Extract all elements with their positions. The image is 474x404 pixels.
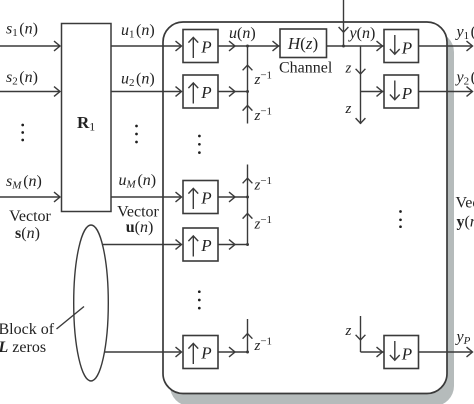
- svg-text:P: P: [200, 38, 211, 57]
- svg-text:H(z): H(z): [287, 34, 318, 53]
- svg-text:y(n): y(n): [348, 25, 376, 42]
- svg-text:Channel: Channel: [279, 60, 333, 77]
- svg-text:z: z: [345, 323, 352, 339]
- svg-text:P: P: [401, 84, 412, 103]
- svg-text:uM(n): uM(n): [119, 172, 157, 191]
- svg-text:u1(n): u1(n): [121, 22, 155, 41]
- svg-text:P: P: [200, 189, 211, 208]
- svg-text:Vector: Vector: [117, 204, 159, 221]
- svg-text:s(n): s(n): [15, 225, 40, 242]
- svg-text:L zeros: L zeros: [0, 339, 46, 356]
- svg-text:u(n): u(n): [229, 25, 256, 42]
- svg-text:Vector: Vector: [456, 195, 474, 212]
- svg-text:P: P: [200, 83, 211, 102]
- svg-text:P: P: [200, 344, 211, 363]
- svg-text:P: P: [401, 344, 412, 363]
- svg-text:s1(n): s1(n): [6, 21, 38, 40]
- svg-text:z: z: [345, 101, 352, 117]
- svg-text:z: z: [345, 61, 352, 77]
- svg-text:y(n): y(n): [457, 214, 474, 231]
- svg-text:Vector: Vector: [9, 208, 51, 225]
- svg-text:u(n): u(n): [126, 219, 154, 236]
- svg-text:u2(n): u2(n): [121, 71, 155, 90]
- svg-text:Block of: Block of: [0, 321, 55, 338]
- svg-text:P: P: [200, 236, 211, 255]
- svg-text:sM(n): sM(n): [6, 173, 42, 192]
- svg-text:s2(n): s2(n): [6, 69, 38, 88]
- svg-text:P: P: [401, 38, 412, 57]
